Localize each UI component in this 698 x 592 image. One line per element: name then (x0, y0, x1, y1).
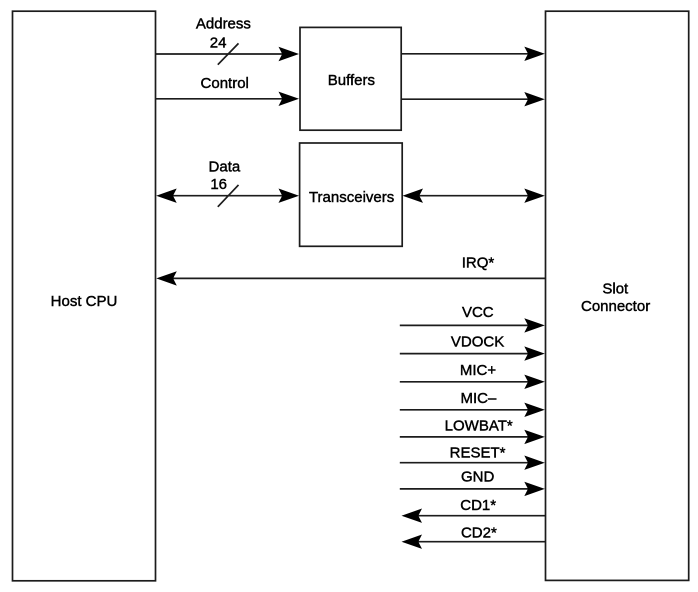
svg-text:MIC+: MIC+ (460, 362, 496, 379)
svg-text:Slot: Slot (602, 280, 629, 297)
svg-text:CD1*: CD1* (460, 497, 496, 514)
svg-text:VDOCK: VDOCK (451, 334, 504, 351)
svg-text:RESET*: RESET* (450, 445, 506, 462)
svg-text:VCC: VCC (462, 304, 494, 321)
svg-text:Control: Control (201, 75, 249, 92)
svg-text:GND: GND (461, 469, 495, 486)
svg-text:24: 24 (210, 35, 227, 52)
svg-text:MIC–: MIC– (460, 390, 496, 407)
svg-text:LOWBAT*: LOWBAT* (445, 418, 513, 435)
svg-text:Address: Address (196, 16, 251, 33)
svg-text:Transceivers: Transceivers (309, 189, 394, 206)
svg-text:IRQ*: IRQ* (462, 255, 495, 272)
svg-text:Data: Data (209, 158, 241, 175)
svg-text:CD2*: CD2* (461, 524, 497, 541)
svg-text:Connector: Connector (581, 298, 650, 315)
svg-text:16: 16 (210, 176, 227, 193)
svg-text:Buffers: Buffers (328, 72, 375, 89)
svg-text:Host CPU: Host CPU (51, 293, 118, 310)
